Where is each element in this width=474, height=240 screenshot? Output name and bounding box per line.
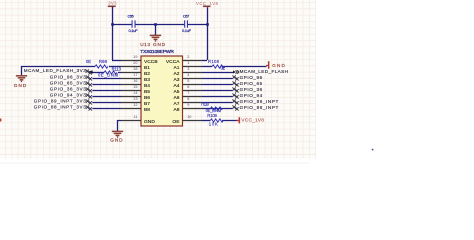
svg-text:GPIO_65_3V3: GPIO_65_3V3 [50, 80, 86, 85]
svg-text:A3: A3 [174, 77, 180, 83]
svg-text:A4: A4 [174, 83, 180, 89]
svg-text:A8: A8 [174, 107, 180, 113]
svg-text:R109: R109 [207, 113, 217, 118]
svg-text:19: 19 [133, 55, 137, 59]
power port GND (right) [266, 61, 285, 69]
svg-text:7: 7 [187, 91, 189, 95]
svg-text:GPIO_96: GPIO_96 [240, 75, 263, 80]
svg-text:0E: 0E [86, 59, 91, 64]
svg-text:R108: R108 [208, 59, 220, 64]
svg-text:R110: R110 [201, 101, 209, 106]
svg-text:GPIO_94: GPIO_94 [240, 93, 263, 98]
port (clipped, left edge) [0, 119, 1, 122]
svg-text:A1: A1 [174, 65, 180, 71]
no-ERC crosses (A3..A8) [232, 75, 238, 110]
svg-text:20: 20 [133, 61, 137, 65]
svg-text:GPIO_65: GPIO_65 [240, 81, 263, 86]
svg-text:R113: R113 [112, 66, 122, 71]
svg-text:U13: U13 [140, 42, 150, 47]
wire A1 row [202, 66, 267, 68]
capacitor C67 [182, 14, 192, 34]
svg-text:4: 4 [187, 73, 189, 77]
svg-text:A2: A2 [174, 71, 180, 77]
svg-text:B7: B7 [144, 101, 150, 107]
svg-text:0.1uF: 0.1uF [129, 28, 139, 33]
svg-text:3: 3 [187, 67, 189, 71]
resistor R108 [208, 59, 225, 70]
svg-text:VCCB: VCCB [144, 59, 158, 65]
no-ERC crosses (B2) [86, 69, 92, 74]
svg-text:A5: A5 [174, 89, 180, 95]
svg-text:5: 5 [187, 79, 189, 83]
svg-text:1: 1 [187, 61, 189, 65]
chevrons (A2) [236, 70, 239, 74]
svg-text:15: 15 [133, 85, 137, 89]
svg-text:OE: OE [172, 119, 180, 125]
pins left (stubs) [121, 61, 141, 121]
svg-text:13: 13 [133, 97, 137, 101]
svg-text:2: 2 [187, 55, 189, 59]
power port VCC_1V8 (bottom) [237, 117, 265, 123]
svg-text:GPIO_89_INPT: GPIO_89_INPT [240, 99, 279, 104]
svg-text:VCCA: VCCA [166, 59, 180, 65]
svg-text:6: 6 [187, 85, 189, 89]
resistor R110 [201, 101, 222, 112]
svg-text:R98: R98 [99, 59, 108, 64]
svg-text:0E_DNM: 0E_DNM [98, 72, 119, 77]
offsheet arrow (A2) [233, 71, 236, 74]
svg-text:GND: GND [272, 63, 285, 68]
wire B2 row [92, 72, 121, 74]
wires A3..A8 rows [202, 79, 232, 109]
svg-text:GPIO_36_3V3: GPIO_36_3V3 [50, 86, 86, 91]
svg-text:0.1uF: 0.1uF [182, 28, 192, 33]
svg-text:TXS0108EPWR: TXS0108EPWR [140, 49, 174, 55]
svg-text:GPIO_88_INPT_3V3: GPIO_88_INPT_3V3 [34, 104, 86, 109]
svg-text:VCC_1V8: VCC_1V8 [196, 1, 219, 6]
svg-text:B3: B3 [144, 77, 150, 83]
power port 3V3 [108, 1, 117, 8]
capacitor C66 [128, 14, 139, 34]
svg-text:VCC_1V8: VCC_1V8 [241, 118, 264, 123]
svg-text:GND: GND [153, 42, 166, 47]
svg-text:10: 10 [187, 115, 191, 119]
wire VCC_1V8 vertical [207, 7, 209, 60]
svg-text:MCAM_LED_FLASH: MCAM_LED_FLASH [240, 69, 288, 74]
svg-text:18: 18 [133, 67, 137, 71]
wire VCCA [202, 60, 207, 62]
svg-text:B8: B8 [144, 107, 150, 113]
svg-text:GND: GND [14, 83, 27, 88]
svg-text:B6: B6 [144, 95, 150, 101]
svg-text:C67: C67 [183, 14, 190, 19]
resistor R98 [86, 59, 108, 68]
svg-text:GPIO_96_3V3: GPIO_96_3V3 [50, 74, 86, 79]
no-ERC crosses (B3..B8) [86, 75, 92, 110]
resistor R113 [98, 66, 122, 77]
svg-text:C66: C66 [128, 14, 135, 19]
svg-text:GND: GND [110, 137, 123, 142]
svg-text:A7: A7 [174, 101, 180, 107]
svg-text:0E: 0E [221, 66, 226, 71]
svg-text:GND: GND [144, 119, 155, 125]
wire GND pin [118, 121, 122, 132]
svg-text:3V3: 3V3 [108, 1, 117, 6]
svg-text:GPIO_36: GPIO_36 [240, 87, 263, 92]
wire A2 row [202, 72, 233, 74]
ground (U13 GND pin) [110, 131, 123, 142]
wire 3V3 vertical [112, 7, 114, 60]
svg-text:11: 11 [134, 115, 138, 119]
svg-text:0E_DNM: 0E_DNM [206, 108, 222, 113]
ground (decoupling rail) [150, 24, 166, 47]
svg-text:14: 14 [133, 91, 137, 95]
wires B3..B8 rows [92, 79, 121, 109]
power port VCC_1V8 (top) [196, 1, 219, 7]
svg-text:12: 12 [133, 103, 137, 107]
pins right (stubs) [183, 61, 203, 121]
wire B1 row [22, 66, 122, 75]
svg-text:A6: A6 [174, 95, 180, 101]
resistor R109 [207, 113, 223, 126]
IC U13 body [141, 56, 183, 126]
offsheet arrow (B2) [87, 70, 93, 74]
pin names right [166, 59, 180, 125]
wire decoupling rail [112, 24, 207, 26]
svg-text:B4: B4 [144, 83, 150, 89]
svg-text:16: 16 [133, 79, 137, 83]
ground (B1 net) [14, 76, 27, 88]
artifact dot [372, 149, 374, 151]
wire VCCB [112, 60, 121, 62]
pin numbers left [133, 55, 137, 119]
svg-text:8: 8 [187, 97, 189, 101]
svg-text:B5: B5 [144, 89, 150, 95]
junction dots [111, 23, 209, 26]
sheet background [0, 0, 316, 159]
svg-text:GPIO_94_3V3: GPIO_94_3V3 [50, 92, 86, 97]
svg-text:GPIO_89_INPT_3V3: GPIO_89_INPT_3V3 [34, 98, 86, 103]
svg-text:10K: 10K [209, 121, 218, 126]
wire OE row [202, 120, 239, 122]
svg-text:B1: B1 [144, 65, 150, 71]
pin names left [144, 59, 158, 125]
svg-text:MCAM_LED_FLASH_3V3: MCAM_LED_FLASH_3V3 [24, 68, 86, 73]
svg-text:B2: B2 [144, 71, 150, 77]
svg-text:9: 9 [187, 103, 189, 107]
svg-text:17: 17 [133, 73, 137, 77]
pin numbers right [187, 55, 191, 119]
svg-text:GPIO_88_INPT: GPIO_88_INPT [240, 105, 279, 110]
